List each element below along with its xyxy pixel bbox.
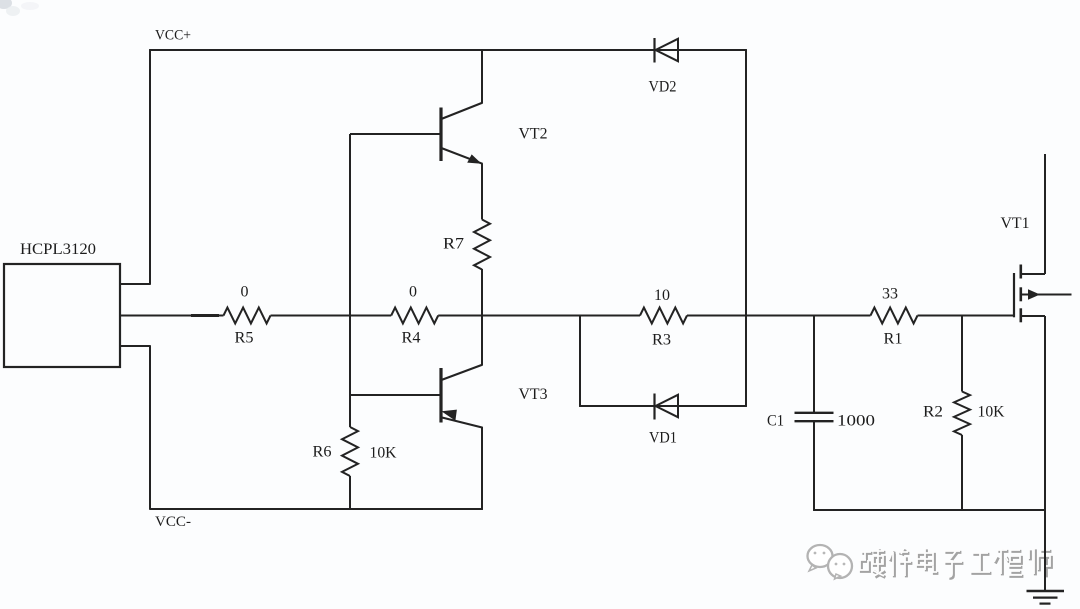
- wire base tie vertical: [349, 134, 351, 427]
- wire R2 bottom lead: [961, 435, 963, 511]
- IC U1 HCPL3120 box: [4, 264, 120, 367]
- svg-text:VD2: VD2: [649, 79, 677, 96]
- label VD1: [649, 430, 677, 447]
- svg-text:R5: R5: [235, 330, 254, 347]
- svg-text:VT1: VT1: [1001, 215, 1030, 232]
- label R3: [652, 332, 671, 349]
- transistor VT1 (MOSFET): [1014, 154, 1072, 511]
- label R4: [402, 330, 421, 347]
- resistor R5: [224, 308, 271, 324]
- wire C1 top lead: [813, 316, 815, 413]
- wire left VCC- drop: [149, 346, 151, 509]
- wire main row seg1: [120, 315, 224, 317]
- label HCPL3120: [20, 241, 96, 258]
- svg-text:10: 10: [654, 287, 670, 304]
- svg-text:C1: C1: [767, 413, 784, 430]
- label R5: [235, 330, 254, 347]
- wire main row seg3: [438, 315, 640, 317]
- svg-text:VT2: VT2: [519, 126, 548, 143]
- wire VD1 branch left drop: [579, 316, 581, 407]
- diode VD2: [655, 38, 679, 63]
- svg-text:33: 33: [882, 286, 898, 303]
- watermark logo: [808, 545, 853, 579]
- label C1: [767, 413, 784, 430]
- svg-text:VT3: VT3: [519, 386, 548, 403]
- net label VCC-: [155, 514, 191, 530]
- wire HCPL3120 pin stub bottom: [120, 345, 151, 347]
- label R7: [443, 236, 464, 253]
- wire main row seg4: [687, 315, 871, 317]
- wire VCC+ top rail: [149, 49, 747, 51]
- wire VT2 collector to VCC+: [481, 49, 483, 103]
- label VT3: [519, 386, 548, 403]
- resistor R7: [474, 220, 490, 270]
- svg-text:VCC+: VCC+: [155, 28, 191, 44]
- svg-text:R7: R7: [443, 236, 464, 253]
- resistor R3: [640, 308, 687, 324]
- svg-text:VD1: VD1: [649, 430, 677, 447]
- wire R7 to output node: [481, 269, 483, 316]
- svg-text:R4: R4: [402, 330, 421, 347]
- diode VD1: [655, 394, 679, 420]
- wire VT3 collector to VCC- rail: [481, 427, 483, 510]
- wire left VCC+ drop: [149, 49, 151, 284]
- wire VT2 emitter to R7: [481, 164, 483, 220]
- svg-text:0: 0: [241, 284, 249, 301]
- svg-text:R1: R1: [884, 331, 903, 348]
- svg-text:R6: R6: [313, 444, 332, 461]
- resistor R2: [954, 392, 970, 436]
- label R6: [313, 444, 332, 461]
- wire VD1 branch bottom: [579, 405, 747, 407]
- value 10K (R2): [978, 404, 1005, 421]
- value 10K (R6): [370, 445, 397, 462]
- wire C1 bottom lead: [813, 422, 815, 511]
- corner smudge artifact: [0, 0, 39, 16]
- svg-text:1000: 1000: [837, 413, 875, 430]
- svg-text:HCPL3120: HCPL3120: [20, 241, 96, 258]
- wire main row seg5: [918, 315, 1014, 317]
- watermark text 硬件电子工程师: [858, 548, 1051, 578]
- wire bottom right rail: [813, 509, 1046, 511]
- label VT1: [1001, 215, 1030, 232]
- value 10 (R3): [654, 287, 670, 304]
- value 1000 (C1): [837, 413, 875, 430]
- label VD2: [649, 79, 677, 96]
- capacitor C1: [795, 413, 834, 421]
- wire R2 top lead: [961, 316, 963, 392]
- wire VD2/VD1 right vertical: [745, 49, 747, 407]
- ground: [1027, 510, 1065, 604]
- resistor R6: [342, 427, 358, 476]
- value 33 (R1): [882, 286, 898, 303]
- label R1: [884, 331, 903, 348]
- transistor VT3: [350, 365, 483, 428]
- label VT2: [519, 126, 548, 143]
- svg-text:R3: R3: [652, 332, 671, 349]
- svg-text:VCC-: VCC-: [155, 514, 191, 530]
- svg-text:R2: R2: [923, 404, 943, 421]
- wire main row seg2: [271, 315, 392, 317]
- svg-text:0: 0: [409, 284, 417, 301]
- resistor R1: [871, 308, 918, 324]
- wire VCC- bottom rail: [149, 508, 483, 510]
- resistor R4: [391, 308, 438, 324]
- wire R6 to VCC- rail: [349, 476, 351, 510]
- svg-text:10K: 10K: [370, 445, 397, 462]
- value 0 (R5): [241, 284, 249, 301]
- wire output node to VT3 emitter: [481, 315, 483, 365]
- label R2: [923, 404, 943, 421]
- wire HCPL3120 pin stub top: [120, 283, 151, 285]
- svg-text:10K: 10K: [978, 404, 1005, 421]
- transistor VT2: [350, 103, 483, 164]
- net label VCC+: [155, 28, 191, 44]
- value 0 (R4): [409, 284, 417, 301]
- wire main row bold overlap: [191, 314, 219, 317]
